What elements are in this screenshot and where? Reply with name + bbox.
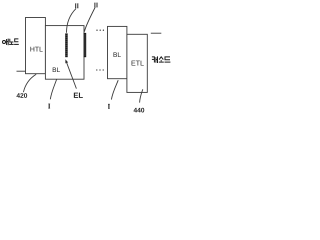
440 label bbox=[134, 108, 145, 113]
leader 440 to ETL bottom bbox=[140, 89, 143, 102]
HTL label bbox=[30, 47, 42, 52]
I label 2 (roman numeral) bbox=[108, 104, 110, 108]
HTL box (420 hole transport layer) bbox=[26, 18, 46, 74]
EL arrowhead bbox=[65, 59, 68, 63]
EL bar 1 (emission layer) bbox=[65, 33, 68, 57]
ETL label bbox=[132, 61, 144, 66]
leader II to EL bar 2 bbox=[84, 7, 95, 31]
EL label bbox=[74, 93, 83, 98]
ellipsis middle bbox=[96, 69, 104, 70]
420 label bbox=[16, 93, 27, 98]
middle BL box bbox=[45, 26, 84, 80]
leader 420 to HTL bottom bbox=[23, 74, 36, 92]
leader I to middle BL bbox=[50, 79, 56, 99]
EL arrow line bbox=[67, 63, 77, 89]
anode label 애노드 (hand-drawn hangul) bbox=[3, 39, 19, 46]
II label 1 (roman numeral) bbox=[75, 4, 78, 8]
EL bar 2 (emission layer) bbox=[84, 33, 87, 57]
anode wire bbox=[17, 70, 26, 72]
cathode wire bbox=[151, 32, 162, 34]
II label 2 (roman numeral) bbox=[94, 3, 97, 7]
cathode label 캐소드 (hand-drawn hangul) bbox=[152, 56, 171, 63]
BL label (middle) bbox=[53, 67, 60, 72]
right BL box bbox=[108, 26, 127, 78]
ellipsis top bbox=[96, 30, 104, 31]
leader I to right BL bbox=[111, 80, 118, 99]
ETL box (440 electron transport layer) bbox=[127, 34, 147, 92]
leader II to EL bar 1 bbox=[67, 9, 77, 33]
BL label (right) bbox=[114, 52, 121, 57]
I label 1 (roman numeral) bbox=[48, 104, 50, 108]
